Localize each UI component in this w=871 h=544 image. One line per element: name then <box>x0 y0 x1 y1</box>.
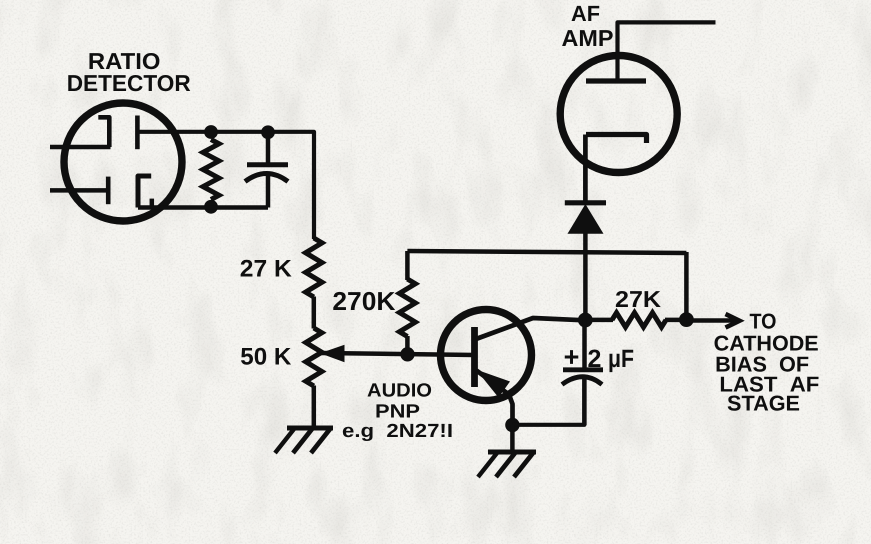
wire V2 plate lead to B+ <box>618 22 716 81</box>
capacitor C1 top lead <box>266 138 271 164</box>
wire R2-R3 <box>312 297 317 329</box>
capacitor C2 top lead <box>582 320 587 369</box>
output arrowhead <box>726 314 740 328</box>
capacitor C2 plates <box>563 367 603 372</box>
Q1 emitter lead <box>477 371 513 426</box>
wire D1 to node <box>583 233 588 320</box>
svg-text:DETECTOR: DETECTOR <box>67 70 191 96</box>
svg-text:+: + <box>564 342 580 372</box>
svg-text:AMP: AMP <box>562 25 614 51</box>
wire R5 right stub <box>665 318 687 323</box>
V1 upper diode plate <box>98 117 109 147</box>
wire V1 lower-left lead <box>50 188 108 193</box>
transistor Q1 envelope <box>441 310 532 401</box>
junction dot output node <box>679 312 694 327</box>
wire V2 cathode lead <box>583 135 588 204</box>
tube V2 AF amp envelope <box>560 56 677 173</box>
wire emitter-ground stub <box>510 425 515 451</box>
capacitor C1 plates <box>247 162 288 167</box>
ground G1 <box>287 426 333 431</box>
capacitor C2 bottom lead <box>582 376 587 425</box>
resistor R4 270K <box>399 279 415 337</box>
V1 lower diode plate <box>106 177 111 205</box>
V2 cathode <box>586 135 647 144</box>
junction dot rail-C1 <box>261 125 275 139</box>
wire bottom rail <box>138 205 268 210</box>
svg-text:μF: μF <box>608 345 634 373</box>
V1 upper diode cathode <box>135 116 140 150</box>
resistor R5 27K <box>612 313 666 327</box>
junction dot R1 bottom <box>204 200 218 214</box>
capacitor C1 bottom lead <box>266 172 271 208</box>
V1 lower diode cathode <box>138 176 151 208</box>
svg-text:27 K: 27 K <box>240 255 293 282</box>
V2 plate bar <box>586 78 646 83</box>
Q1 collector lead <box>476 318 585 339</box>
wire output lead <box>686 318 738 323</box>
wire node-R5 stub <box>589 318 613 323</box>
junction dot base node <box>400 347 414 361</box>
wire top rail / node A <box>139 132 314 239</box>
junction dot emitter node <box>505 418 519 432</box>
svg-text:AF: AF <box>571 1 600 26</box>
R3 wiper arrowhead <box>320 345 345 362</box>
junction dot rail-R1 <box>204 125 218 139</box>
wire 270K bottom stub <box>405 336 410 354</box>
wire V1 upper-left lead <box>50 145 111 150</box>
R3 wiper wire <box>321 353 475 355</box>
Q1 base bar <box>471 327 478 387</box>
svg-text:2: 2 <box>587 345 601 373</box>
diode D1 triangle <box>568 204 604 234</box>
ground G2 <box>488 450 536 455</box>
svg-text:TO: TO <box>750 310 777 334</box>
resistor R2 27K <box>306 238 322 297</box>
Q1 emitter arrowhead (PNP) <box>476 370 510 398</box>
diode D1 cathode bar <box>565 200 606 205</box>
wire upper rail node B <box>407 251 686 253</box>
potentiometer R3 50K element <box>306 328 322 386</box>
svg-text:AUDIO: AUDIO <box>367 381 432 402</box>
junction dot collector node <box>578 313 593 328</box>
wire right vertical <box>684 252 689 320</box>
wire emitter rail <box>512 377 584 425</box>
tube V1 ratio detector envelope <box>64 103 182 221</box>
svg-text:27K: 27K <box>615 286 661 312</box>
wire 270K top stub <box>405 251 410 280</box>
svg-text:50 K: 50 K <box>240 344 292 371</box>
wire R3 to ground <box>312 386 317 429</box>
svg-text:PNP: PNP <box>375 401 420 422</box>
resistor R1 (detector load) <box>203 140 219 200</box>
svg-text:STAGE: STAGE <box>727 392 800 416</box>
svg-text:270K: 270K <box>332 286 395 316</box>
svg-text:e.g 2N27!I: e.g 2N27!I <box>342 421 453 442</box>
